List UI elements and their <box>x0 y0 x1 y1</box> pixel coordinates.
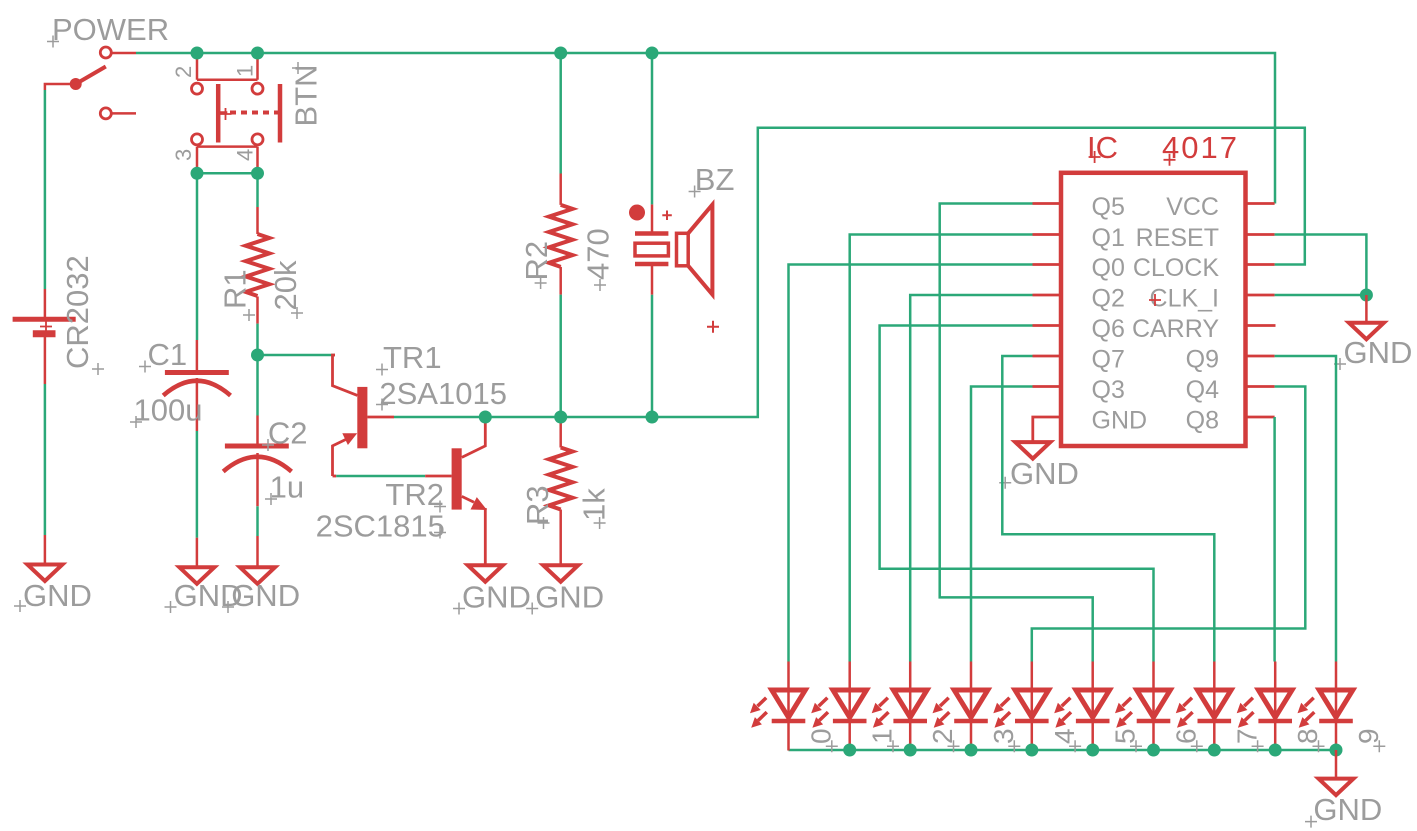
wire R1 to node A <box>256 324 259 355</box>
svg-text:3: 3 <box>171 149 196 161</box>
pin Q0 <box>1033 254 1125 282</box>
svg-text:Q9: Q9 <box>1186 346 1219 374</box>
wire Q4 to LED4 <box>1032 387 1306 662</box>
wire Q5 to LED5 <box>940 204 1093 662</box>
svg-text:4: 4 <box>233 149 258 161</box>
svg-text:Q1: Q1 <box>1092 224 1125 252</box>
wire BTN pins 3-4 bottom link <box>197 172 258 175</box>
svg-text:GND: GND <box>1092 407 1148 435</box>
svg-text:470: 470 <box>581 228 616 280</box>
svg-text:Q0: Q0 <box>1092 254 1125 282</box>
svg-text:2: 2 <box>171 66 196 78</box>
junction rail at BTN pin1 <box>251 47 264 60</box>
resistor R1 20k <box>218 207 304 324</box>
wire BTN pin3 to C1 <box>196 173 199 340</box>
svg-text:POWER: POWER <box>52 12 169 47</box>
LED D5 <box>1054 662 1142 753</box>
svg-text:IC: IC <box>1087 130 1118 165</box>
pin Q9 <box>1186 346 1275 374</box>
LED D3 <box>933 662 1021 753</box>
wire battery negative to ground <box>44 384 47 535</box>
junction node A <box>251 349 264 362</box>
junction bus LED8 <box>1269 744 1282 757</box>
pin Q8 <box>1186 407 1275 435</box>
ground GND bottom right <box>1305 750 1382 828</box>
wire Q6 to LED6 <box>880 326 1154 662</box>
switch POWER <box>45 12 169 119</box>
wire BTN pin4 to R1 <box>256 173 259 207</box>
svg-text:Q3: Q3 <box>1092 376 1125 404</box>
pushbutton BTN <box>171 53 324 173</box>
svg-text:GND: GND <box>23 578 92 613</box>
ground GND C2 <box>222 536 300 613</box>
svg-text:RESET: RESET <box>1136 224 1219 252</box>
svg-text:CARRY: CARRY <box>1132 315 1219 343</box>
svg-text:20k: 20k <box>268 260 303 310</box>
svg-text:CR2032: CR2032 <box>60 255 95 369</box>
LED D9 <box>1298 662 1386 753</box>
pin Q6 <box>1033 315 1125 343</box>
transistor TR2 2SC1815 <box>316 417 487 565</box>
svg-text:GND: GND <box>1344 335 1413 370</box>
ground GND right of IC <box>1334 295 1412 370</box>
wire node A to C2 <box>256 355 259 416</box>
junction bus LED6 <box>1147 744 1160 757</box>
resistor R3 1k <box>520 417 612 565</box>
wire R2 to base net <box>559 295 562 417</box>
ground GND C1 <box>165 538 243 613</box>
pin Q1 <box>1033 224 1125 252</box>
junction BTN pin3 <box>191 167 204 180</box>
svg-text:BZ: BZ <box>695 162 735 197</box>
battery CR2032 <box>13 255 104 384</box>
resistor R2 470 <box>519 174 616 295</box>
svg-text:C1: C1 <box>148 337 188 372</box>
svg-text:Q7: Q7 <box>1092 346 1125 374</box>
svg-text:BTN: BTN <box>289 65 324 127</box>
pin Q2 <box>1033 285 1125 313</box>
svg-text:R3: R3 <box>520 485 555 525</box>
LED D4 <box>993 662 1081 753</box>
capacitor C2 1u <box>223 416 307 507</box>
junction rail at BTN pin2 <box>191 47 204 60</box>
junction bus LED3 <box>965 744 978 757</box>
svg-text:1: 1 <box>233 65 258 77</box>
capacitor C1 100u <box>130 337 231 431</box>
wire Q8 to LED8 <box>1273 417 1276 662</box>
svg-text:CLK_I: CLK_I <box>1150 285 1219 313</box>
wire Q0 to LED0 <box>789 265 1033 662</box>
wire base net and clock feedback <box>394 128 1305 417</box>
transistor TR1 2SA1015 <box>333 340 507 476</box>
pin Q7 <box>1033 346 1125 374</box>
svg-text:R1: R1 <box>218 269 253 309</box>
wire rail to BZ <box>651 53 654 204</box>
wire BZ to base net <box>651 295 654 417</box>
junction bus LED2 <box>904 744 917 757</box>
svg-text:Q5: Q5 <box>1092 193 1125 221</box>
pin RESET <box>1136 224 1275 252</box>
junction bus LED1 <box>843 744 856 757</box>
junction base net R2 R3 <box>554 411 567 424</box>
ground GND battery <box>14 535 92 613</box>
wire Q1 to LED1 <box>850 235 1033 662</box>
wire Q3 to LED3 <box>971 387 1033 662</box>
svg-text:GND: GND <box>231 578 300 613</box>
svg-text:Q6: Q6 <box>1092 315 1125 343</box>
LED D0 <box>750 662 838 753</box>
junction bus LED9 <box>1330 744 1343 757</box>
pin CLOCK <box>1133 254 1275 282</box>
LED D6 <box>1115 662 1203 753</box>
wire Q7 to LED7 <box>1002 356 1214 662</box>
pin GND of IC <box>1033 407 1147 443</box>
svg-text:1k: 1k <box>577 488 612 521</box>
wire node A to TR1 collector <box>258 354 336 357</box>
pin CARRY <box>1132 315 1276 343</box>
LED D8 <box>1237 662 1325 753</box>
wire Q2 to LED2 <box>910 295 1032 662</box>
junction base net BZ <box>646 411 659 424</box>
svg-text:GND: GND <box>1313 792 1382 827</box>
pin VCC <box>1166 193 1274 221</box>
wire Q9 to LED9 <box>1275 356 1336 662</box>
wire TR1 emitter to TR2 base <box>336 475 425 478</box>
svg-text:TR1: TR1 <box>383 340 442 375</box>
svg-text:VCC: VCC <box>1166 193 1219 221</box>
junction right ground node <box>1360 289 1373 302</box>
ground GND below IC <box>999 442 1079 491</box>
buzzer BZ <box>629 162 734 333</box>
junction rail R2 <box>554 47 567 60</box>
LED D7 <box>1176 662 1264 753</box>
wire LED cathode bus <box>789 749 1337 752</box>
pin Q5 <box>1033 193 1125 221</box>
svg-text:Q8: Q8 <box>1186 407 1219 435</box>
svg-text:R2: R2 <box>519 241 554 281</box>
wire CLK_I to right ground node <box>1275 294 1367 297</box>
wire C2 to ground <box>256 506 259 536</box>
ground GND R3 <box>526 565 604 614</box>
junction base net TR2 collector <box>479 411 492 424</box>
svg-text:100u: 100u <box>134 393 203 428</box>
wire battery positive to switch <box>44 90 47 289</box>
LED D2 <box>872 662 960 753</box>
ground GND TR2 <box>453 565 531 614</box>
svg-text:GND: GND <box>1010 456 1079 491</box>
pin CLK_I <box>1149 285 1275 313</box>
wire VCC top rail <box>136 53 1275 204</box>
pin Q3 <box>1033 376 1125 404</box>
svg-text:Q2: Q2 <box>1092 285 1125 313</box>
LED D1 <box>811 662 899 753</box>
svg-text:CLOCK: CLOCK <box>1133 254 1219 282</box>
wire RESET to right ground node <box>1275 235 1367 296</box>
junction BTN pin4 <box>251 167 264 180</box>
svg-text:GND: GND <box>535 580 604 615</box>
junction bus LED5 <box>1086 744 1099 757</box>
svg-text:GND: GND <box>462 580 531 615</box>
pin Q4 <box>1186 376 1275 404</box>
svg-text:Q4: Q4 <box>1186 376 1219 404</box>
IC U1 4017 decade counter <box>1061 130 1246 446</box>
junction bus LED7 <box>1208 744 1221 757</box>
wire C1 to ground <box>196 431 199 538</box>
junction rail BZ <box>646 47 659 60</box>
svg-text:2SC1815: 2SC1815 <box>316 509 445 544</box>
wire rail to R2 <box>559 53 562 174</box>
svg-text:2SA1015: 2SA1015 <box>379 376 507 411</box>
junction bus LED4 <box>1025 744 1038 757</box>
